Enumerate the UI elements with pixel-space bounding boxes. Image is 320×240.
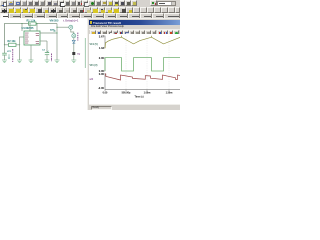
- label C1 rotated: [12, 49, 13, 62]
- svg-text:U1 NE555: U1 NE555: [22, 26, 35, 30]
- axis subplot3: [104, 73, 106, 90]
- trace VC1 (olive triangle): [122, 36, 181, 38]
- wire R2 right: [16, 44, 20, 46]
- resistor R1: [29, 22, 37, 25]
- wire: U1 bottom pin: [30, 45, 32, 60]
- op-amp U1 (555 timer body): [24, 31, 40, 45]
- wire: Vcc top rail: [5, 24, 58, 45]
- trace I (maroon sawtooth): [105, 74, 181, 80]
- svg-text:wI2: wI2: [90, 79, 94, 81]
- svg-text:0.00: 0.00: [103, 92, 108, 95]
- svg-text:1.33: 1.33: [99, 47, 105, 51]
- svg-text:t. Delay(s)=1: t. Delay(s)=1: [63, 19, 79, 23]
- toolbar: [89, 29, 181, 36]
- svg-text:VF1 (V): VF1 (V): [90, 65, 98, 67]
- resistor R2: [9, 43, 17, 46]
- voltmeter VM1: [69, 25, 73, 29]
- svg-text:3.67: 3.67: [99, 35, 105, 39]
- pin labels U1 left: [25, 33, 29, 44]
- ground: [29, 60, 34, 63]
- analysis window: [87, 18, 180, 110]
- wire R2 left: [5, 44, 9, 46]
- wire: U1 out to node: [40, 32, 57, 34]
- wire: U1 to C2 branch: [40, 40, 47, 42]
- svg-text:2.00: 2.00: [99, 57, 105, 61]
- ground: [45, 60, 50, 63]
- svg-text:500.00u: 500.00u: [122, 92, 131, 95]
- axis subplot1: [104, 36, 106, 49]
- title bar: [89, 20, 181, 25]
- plot area: [89, 34, 181, 104]
- x axis: [105, 89, 181, 91]
- node A junction: [56, 32, 57, 33]
- main toolbar row 1: [0, 0, 180, 6]
- ground: [55, 60, 60, 63]
- capacitor C2: [46, 41, 48, 52]
- main toolbar row 2: [0, 6, 180, 13]
- menu bar: [89, 25, 181, 29]
- svg-text:VC1 (V): VC1 (V): [90, 44, 98, 46]
- svg-text:-2.00: -2.00: [98, 86, 105, 90]
- label AM1 rotated: [77, 33, 78, 41]
- svg-text:R2 10k: R2 10k: [8, 40, 17, 43]
- wire: U1 left pin column: [20, 37, 25, 60]
- schematic canvas: [0, 18, 180, 110]
- label C2 rotated: [51, 54, 52, 62]
- trace VF1 (green square): [105, 58, 181, 71]
- battery V1: [72, 52, 75, 55]
- wire to D1: [73, 38, 75, 41]
- status bar: [89, 104, 181, 111]
- wire VM1 left: [57, 26, 69, 28]
- diode D1: [72, 40, 75, 43]
- svg-text:1.50m: 1.50m: [166, 92, 173, 95]
- ground: [71, 60, 76, 63]
- component tab strip: [0, 13, 180, 18]
- svg-text:0.00: 0.00: [99, 72, 105, 76]
- wire: right edge stub: [84, 38, 86, 68]
- capacitor C1: [4, 45, 6, 53]
- axis subplot2: [104, 58, 106, 72]
- svg-text:VM 555: VM 555: [50, 19, 59, 23]
- pin labels U1 right: [36, 33, 39, 44]
- wire battery down: [73, 55, 75, 60]
- ground: [2, 60, 7, 63]
- wire: pin stubs to U1: [21, 24, 23, 32]
- svg-text:1.00m: 1.00m: [144, 92, 151, 95]
- svg-text:Time (s): Time (s): [134, 96, 143, 99]
- wire VM1 down: [71, 29, 74, 34]
- gridlines: [126, 36, 169, 90]
- wire: node column: [56, 24, 58, 61]
- ground: [17, 60, 22, 63]
- svg-text:VC1: VC1: [7, 51, 12, 53]
- svg-text:5V: 5V: [77, 54, 80, 56]
- svg-text:C2: C2: [42, 49, 46, 51]
- wire D1 down: [73, 44, 75, 53]
- ammeter AM1: [72, 34, 76, 38]
